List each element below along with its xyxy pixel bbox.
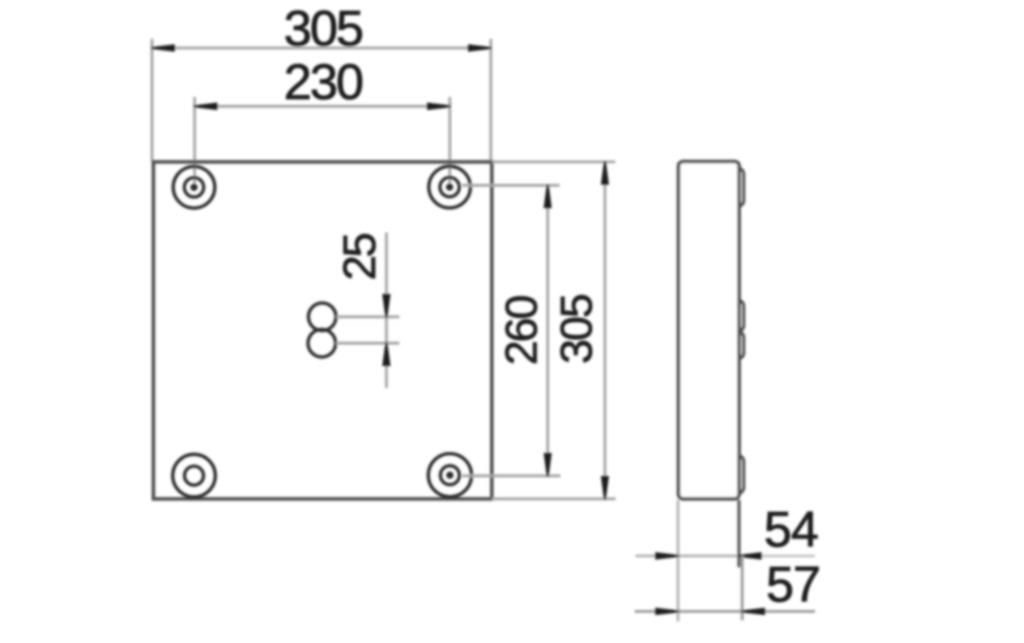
- svg-text:305: 305: [284, 0, 362, 56]
- dimension 260 (right, vertical): dimension line: [462, 185, 561, 476]
- dimension 305 right: arrowheads: [602, 162, 608, 499]
- corner hole top-right (counterbore): [429, 166, 471, 208]
- svg-text:230: 230: [284, 53, 363, 110]
- extension line left down to top-left hole center: [193, 97, 196, 187]
- extension line bottom from bottom-right hole: [462, 474, 561, 477]
- side view: boss bump middle upper: [730, 300, 744, 331]
- svg-text:260: 260: [498, 295, 547, 365]
- dimension 54: extension line right (body right face, darker): [737, 500, 740, 567]
- dimension 230: arrowheads: [195, 104, 450, 109]
- center small hole upper: [308, 303, 336, 331]
- extension line bottom from plate bottom edge: [492, 497, 616, 500]
- svg-text:25: 25: [334, 234, 385, 281]
- extension line left (plate left edge): [151, 39, 154, 162]
- side view: boss bump middle lower: [730, 332, 744, 359]
- dimension 25: arrowheads (outside, pointing inward): [383, 295, 389, 365]
- corner hole bottom-right (counterbore): [428, 454, 471, 497]
- side view: plate body outline: [679, 162, 740, 499]
- extension line top from top-right hole: [462, 184, 560, 187]
- corner hole top-left (counterbore): [173, 167, 215, 209]
- dimension 305 top: dimension line: [152, 39, 491, 162]
- svg-text:54: 54: [764, 500, 818, 557]
- dimension 54: arrowheads (outside, pointing inward): [656, 553, 761, 558]
- dimension 54: leader tail under label: [762, 555, 815, 558]
- extension line right down to top-right hole center: [448, 97, 451, 187]
- extension line lower hole: [336, 342, 399, 345]
- svg-text:305: 305: [553, 295, 602, 364]
- front view plate outline: [153, 162, 491, 499]
- dimension 305 top: arrowheads: [152, 45, 491, 50]
- dimension 54: dimension line: [636, 500, 763, 622]
- dimension 305 (right, vertical): dimension line: [492, 162, 616, 499]
- extension line upper hole: [336, 315, 399, 318]
- extension line left (side view left face): [677, 500, 680, 622]
- center small hole lower: [308, 329, 336, 357]
- extension line right (plate right edge): [489, 39, 492, 162]
- dimension 260: arrowheads: [545, 185, 551, 476]
- dimension 57: arrowheads (outside, pointing inward): [656, 609, 764, 614]
- extension line right (boss outer face): [741, 556, 744, 620]
- dimension 57: dimension line: [635, 556, 815, 620]
- svg-text:57: 57: [766, 556, 820, 613]
- side view: boss bump top (at top hole): [730, 168, 744, 206]
- extension line top from plate top edge: [492, 160, 615, 163]
- dimension 25 (center holes spacing): dimension line: [336, 233, 399, 389]
- side view: boss bump bottom (at bottom hole): [730, 456, 744, 493]
- dimension 230: dimension line: [195, 97, 450, 187]
- corner hole bottom-left (counterbore): [173, 454, 216, 497]
